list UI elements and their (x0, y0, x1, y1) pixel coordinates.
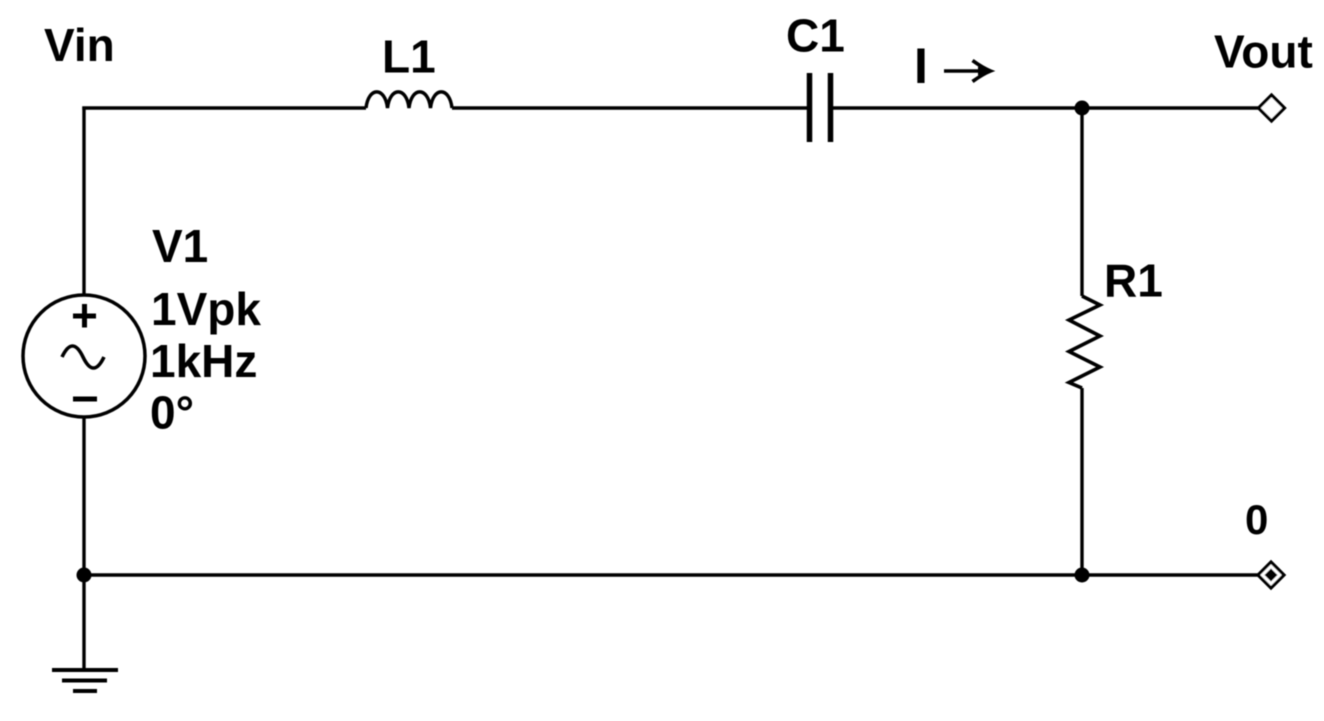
wire top horizontal: Vin to L1 (82, 106, 366, 109)
svg-text:1kHz: 1kHz (150, 335, 257, 387)
wire top node to R1 (1080, 108, 1083, 296)
wire R1 to bottom rail (1080, 388, 1083, 575)
wire bottom rail (84, 573, 1258, 576)
svg-text:V1: V1 (152, 220, 208, 272)
svg-text:0: 0 (1245, 496, 1268, 543)
current arrow (944, 61, 991, 82)
voltage source minus sign (73, 397, 97, 402)
capacitor C1 (810, 73, 831, 142)
terminal 0 (ground net) diamond (1258, 562, 1284, 588)
inductor L1 (366, 92, 452, 108)
wire V1 to ground (82, 417, 85, 670)
terminal Vout diamond (1259, 95, 1285, 121)
svg-text:1Vpk: 1Vpk (151, 283, 261, 335)
wire C1 to Vout (833, 106, 1258, 109)
voltage source sine wave (62, 346, 104, 368)
svg-text:0°: 0° (150, 387, 194, 439)
node junction top (Vout node) (1075, 101, 1090, 116)
ground (52, 670, 118, 691)
voltage source plus sign (73, 304, 96, 328)
svg-text:C1: C1 (786, 10, 845, 62)
node junction bottom-left (77, 568, 92, 583)
svg-text:Vout: Vout (1214, 26, 1313, 78)
voltage source V1 circle (23, 295, 145, 417)
svg-text:L1: L1 (382, 31, 436, 83)
svg-text:R1: R1 (1104, 255, 1163, 307)
node junction bottom-right (1075, 568, 1090, 583)
svg-text:Vin: Vin (44, 19, 115, 71)
resistor R1 (1069, 296, 1100, 388)
wire Vin vertical drop (82, 107, 85, 297)
wire L1 to C1 (452, 106, 807, 109)
svg-text:I: I (914, 38, 928, 94)
